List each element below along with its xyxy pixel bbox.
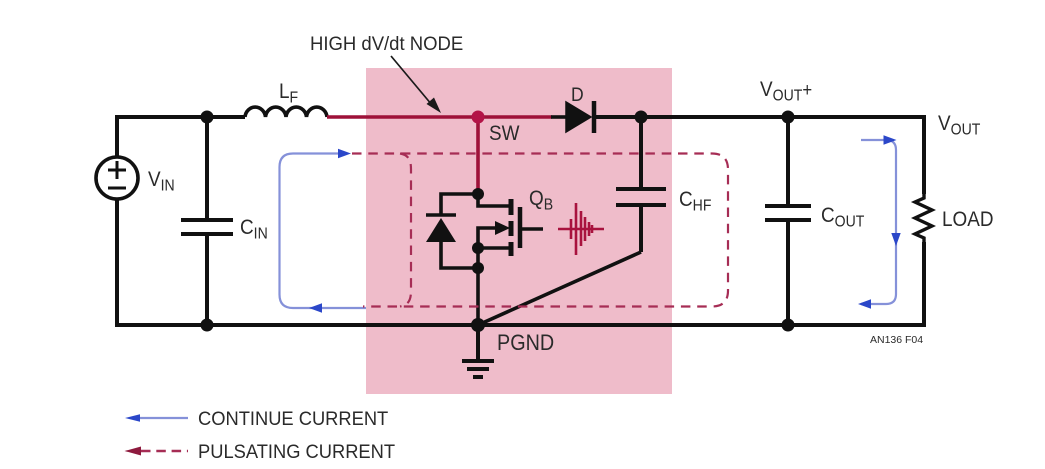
dashed pulsating-current loop [352,154,728,307]
legend: continue current [125,409,389,431]
node VOUT+ top [782,111,795,124]
svg-text:LF: LF [279,80,298,107]
wire: crimson Lf to SW node [327,115,478,119]
resistor LOAD [915,194,932,242]
wire: drain to body-diode branch [441,194,478,214]
svg-text:D: D [571,83,584,105]
wire: crimson SW down to Q drain [476,117,480,194]
capacitor COUT [765,117,811,325]
gate bar [518,207,523,248]
node: drain junction [472,188,484,200]
node Cin bottom [201,319,214,332]
inductor LF [245,107,327,117]
svg-text:CIN: CIN [240,216,268,243]
wire: body diode anode down and to source [441,242,478,268]
capacitor CIN [181,117,233,325]
svg-text:CHF: CHF [679,188,711,215]
channel segment middle [509,221,514,236]
svg-text:PULSATING CURRENT: PULSATING CURRENT [198,442,395,464]
wire: top rail diode cathode to Vout corner [596,115,926,119]
svg-text:VIN: VIN [148,168,175,195]
wire: right rail below load [922,242,926,327]
hot-loop highlight region [366,68,672,394]
capacitor CHF [616,117,666,252]
svg-text:SW: SW [489,122,520,145]
node: source junction [472,242,484,254]
source lead [478,246,511,250]
svg-text:VOUT: VOUT [938,112,980,139]
wire: top rail left (Vin top to Cin node to Lf) [115,115,245,119]
body diode cathode bar [426,213,456,217]
svg-text:HIGH dV/dt NODE: HIGH dV/dt NODE [310,34,463,56]
wire: source to PGND [476,248,480,325]
blue continue-current loop right [858,135,901,308]
MOSFET QB with body diode [426,188,543,325]
wire: drain lead into channel [478,194,511,206]
svg-text:CONTINUE CURRENT: CONTINUE CURRENT [198,409,389,431]
gate lead [522,227,543,231]
annotation arrow to SW node [391,56,441,113]
blue continue-current loop left [280,149,367,313]
ringing noise glyph [558,203,604,255]
node COUT bottom [782,319,795,332]
channel segment bottom [509,242,514,256]
wire: CHF bottom diagonal to PGND [478,252,641,325]
wire: left rail vertical [115,115,119,157]
node: diode cathode / CHF top [635,111,648,124]
body arrow [478,228,497,248]
node Cin top [201,111,214,124]
voltage source VIN [96,157,138,199]
wire: bottom rail [115,323,926,327]
node: body diode return junction [472,262,484,274]
legend: pulsating current [125,442,396,464]
channel segment top [509,199,514,215]
svg-text:PGND: PGND [497,331,554,355]
wire: left rail below source [115,199,119,327]
svg-text:LOAD: LOAD [942,208,994,231]
svg-text:COUT: COUT [821,204,864,231]
diode D [551,101,594,133]
svg-text:AN136 F04: AN136 F04 [870,334,923,346]
node SW [472,111,485,124]
body diode triangle [426,218,456,242]
node PGND [471,318,485,332]
svg-text:VOUT+: VOUT+ [760,78,812,105]
wire: right rail (Vout corner down to load and bottom) [922,115,926,194]
wire: crimson SW to diode anode [478,115,552,119]
ground symbol [462,325,494,377]
